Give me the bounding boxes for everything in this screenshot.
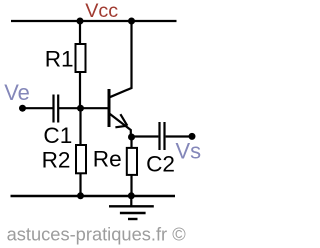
wire ground rail bbox=[11, 195, 176, 197]
svg-text:Ve: Ve bbox=[4, 80, 30, 105]
wire C2 to Vs terminal bbox=[166, 135, 192, 137]
wire Re to ground rail bbox=[130, 175, 132, 196]
svg-text:astuces-pratiques.fr ©: astuces-pratiques.fr © bbox=[7, 223, 187, 244]
transistor Q1 base bar bbox=[108, 89, 111, 127]
node Vcc-R1 junction bbox=[77, 18, 84, 25]
svg-text:Re: Re bbox=[93, 147, 122, 172]
transistor Q1 emitter lead bbox=[109, 113, 131, 137]
node Re-ground junction bbox=[128, 192, 135, 199]
wire Ve to C1 bbox=[23, 107, 53, 109]
svg-text:Vs: Vs bbox=[176, 139, 202, 164]
node R2-ground junction bbox=[77, 192, 84, 199]
svg-text:Vcc: Vcc bbox=[85, 0, 118, 22]
node Vcc-collector junction bbox=[128, 18, 135, 25]
svg-text:R2: R2 bbox=[42, 148, 71, 173]
resistor Re bbox=[127, 148, 137, 175]
wire R1 bottom to base node bbox=[79, 72, 81, 109]
node Vs output terminal bbox=[189, 133, 196, 140]
wire base node to transistor base bbox=[81, 107, 108, 109]
wire Vcc rail bbox=[11, 20, 177, 22]
transistor Q1 emitter arrow bbox=[115, 114, 127, 127]
node Ve input terminal bbox=[19, 105, 26, 112]
svg-text:R1: R1 bbox=[45, 47, 74, 72]
ground symbol bbox=[109, 196, 154, 219]
node emitter junction bbox=[128, 134, 135, 141]
wire emitter node to C2 bbox=[132, 135, 159, 137]
svg-text:C1: C1 bbox=[43, 123, 72, 148]
wire emitter node to Re bbox=[130, 137, 132, 148]
transistor Q1 collector lead bbox=[110, 22, 132, 97]
resistor R2 bbox=[76, 145, 86, 173]
svg-text:C2: C2 bbox=[146, 152, 175, 177]
capacitor C2 bbox=[160, 122, 165, 150]
wire R2 to ground rail bbox=[79, 173, 81, 196]
wire base node to R2 bbox=[79, 108, 81, 145]
node base junction bbox=[77, 105, 84, 112]
wire R1 top bbox=[79, 21, 81, 44]
resistor R1 bbox=[76, 44, 86, 72]
wire C1 to base node bbox=[59, 107, 81, 109]
capacitor C1 bbox=[54, 95, 59, 123]
